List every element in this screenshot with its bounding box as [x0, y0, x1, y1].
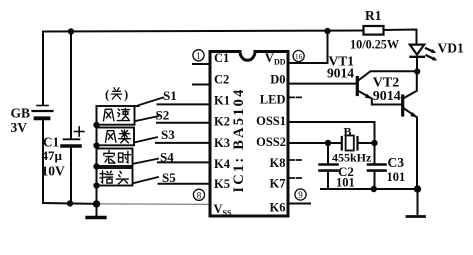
svg-text:): ): [124, 88, 128, 102]
svg-text:10/0.25W: 10/0.25W: [350, 38, 399, 52]
svg-text:C3: C3: [388, 155, 405, 170]
svg-text:9014: 9014: [327, 65, 354, 80]
svg-text:B: B: [344, 125, 352, 139]
svg-text:S5: S5: [162, 170, 176, 185]
svg-text:VD1: VD1: [438, 40, 464, 55]
svg-text:101: 101: [336, 176, 355, 190]
svg-text:S2: S2: [156, 108, 170, 123]
svg-text:K8: K8: [270, 156, 286, 170]
svg-text:GB: GB: [11, 106, 31, 121]
svg-text:C1: C1: [214, 51, 229, 65]
svg-text:OSS1: OSS1: [256, 114, 286, 128]
svg-text:K7: K7: [270, 176, 286, 190]
svg-text:K5: K5: [214, 177, 230, 191]
svg-text:K1: K1: [214, 94, 230, 108]
svg-text:K2: K2: [214, 115, 230, 129]
svg-text:16: 16: [295, 52, 303, 61]
svg-text:D0: D0: [270, 72, 285, 86]
svg-text:K6: K6: [270, 201, 286, 215]
svg-text:9: 9: [298, 190, 303, 200]
svg-text:S1: S1: [163, 88, 177, 103]
svg-text:R1: R1: [365, 8, 382, 23]
svg-text:9014: 9014: [373, 89, 401, 104]
svg-text:47µ: 47µ: [42, 148, 63, 163]
svg-text:K3: K3: [214, 136, 230, 150]
svg-text:8: 8: [197, 191, 202, 201]
svg-text:C2: C2: [214, 72, 229, 86]
svg-text:3V: 3V: [11, 120, 28, 135]
svg-text:455kHz: 455kHz: [332, 151, 372, 165]
svg-text:10V: 10V: [42, 163, 66, 178]
svg-text:S3: S3: [161, 127, 175, 142]
svg-text:(: (: [105, 88, 109, 102]
svg-text:1: 1: [196, 51, 201, 61]
svg-text:101: 101: [387, 170, 406, 184]
svg-text:IC1: BA5104: IC1: BA5104: [231, 87, 247, 192]
svg-text:VT2: VT2: [373, 75, 399, 90]
svg-text:K4: K4: [214, 157, 231, 171]
svg-text:OSS2: OSS2: [256, 135, 286, 149]
svg-text:S4: S4: [160, 150, 174, 165]
svg-text:LED: LED: [260, 93, 286, 107]
